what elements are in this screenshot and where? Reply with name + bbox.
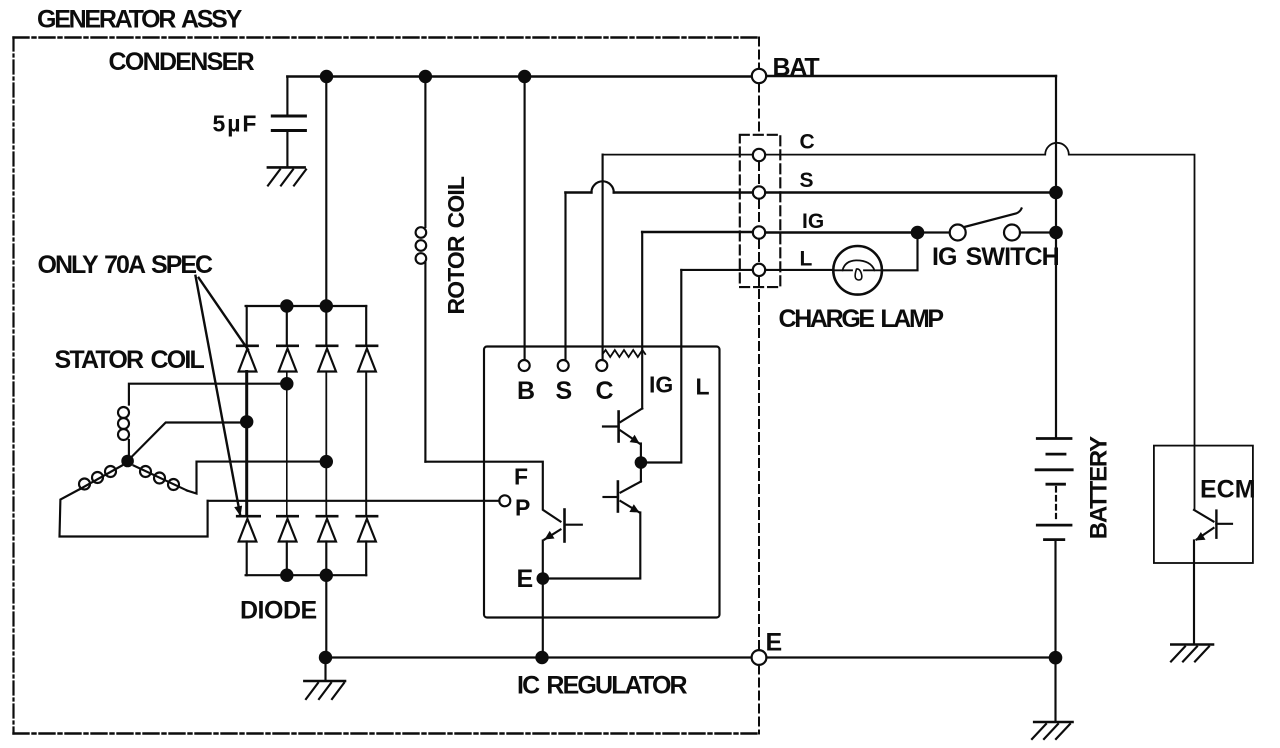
connector terminal L xyxy=(753,264,765,276)
connector (dashed) xyxy=(740,135,781,287)
svg-text:DIODE: DIODE xyxy=(240,597,317,625)
ground (generator) xyxy=(304,658,345,700)
battery xyxy=(1036,439,1072,722)
ground (condenser) xyxy=(268,167,306,185)
diode D1 (top col1, 70A spec) xyxy=(237,306,257,516)
svg-text:BATTERY: BATTERY xyxy=(1086,436,1113,539)
svg-text:S: S xyxy=(800,169,814,192)
junction node (col3 / bridge top) xyxy=(320,299,333,312)
svg-text:CHARGE LAMP: CHARGE LAMP xyxy=(779,305,944,333)
diode bridge bottom bus xyxy=(246,574,367,576)
regulator terminal B xyxy=(519,360,530,371)
diode D6 (bottom col2) xyxy=(277,516,297,575)
regulator terminal S xyxy=(558,360,569,371)
diode D3 (top col3) xyxy=(317,306,337,516)
junction node (battery / ground bus) xyxy=(1049,651,1063,665)
wire ground bus right segment xyxy=(767,656,1050,658)
resistor R1 (C to IG inside regulator) xyxy=(603,350,646,357)
stator coil left winding xyxy=(60,466,208,537)
svg-text:5µF: 5µF xyxy=(213,111,259,137)
junction node (diode col3 / top bus) xyxy=(320,70,333,83)
wire top bus xyxy=(287,75,752,78)
ground (battery) xyxy=(1032,722,1073,739)
junction node (S / right rail) xyxy=(1049,186,1063,200)
transistor Q1 (upper) xyxy=(603,409,642,457)
arch S over C vertical xyxy=(591,181,613,192)
charge lamp xyxy=(833,246,882,295)
junction node E (inside regulator) xyxy=(537,572,550,585)
svg-text:L: L xyxy=(696,374,710,400)
regulator terminal P xyxy=(499,495,510,506)
svg-text:STATOR COIL: STATOR COIL xyxy=(55,346,205,374)
generator assy boundary left edge xyxy=(12,38,14,734)
stator coil vertical winding xyxy=(118,407,129,456)
diode D2 (top col2) xyxy=(277,306,297,516)
svg-text:E: E xyxy=(517,565,534,593)
rotor coil xyxy=(416,77,427,462)
svg-text:S: S xyxy=(556,377,573,405)
diode D4 (top col4) xyxy=(357,306,377,516)
wire stator P tap to regulator P xyxy=(208,500,500,502)
wire S line to S terminal xyxy=(564,193,566,360)
wire L line to charge lamp xyxy=(765,269,833,271)
diode bridge top bus xyxy=(246,305,367,307)
svg-text:ECM: ECM xyxy=(1200,476,1256,504)
junction node (Q1 emitter / L) xyxy=(635,456,648,469)
ground bus wire xyxy=(326,656,752,658)
svg-text:CONDENSER: CONDENSER xyxy=(109,48,255,76)
wire diode col3 to top bus xyxy=(325,77,327,307)
wire C line (connector to ECM, arch over rail) xyxy=(603,143,1195,510)
IC regulator box xyxy=(484,347,720,618)
transistor Q4 (in ECM) xyxy=(1194,510,1232,644)
svg-text:ROTOR COIL: ROTOR COIL xyxy=(443,176,469,314)
capacitor C1 5uF xyxy=(272,77,305,167)
svg-text:ONLY 70A SPEC: ONLY 70A SPEC xyxy=(38,251,214,279)
wire L into regulator xyxy=(647,270,681,463)
wire bridge bottom to ground bus xyxy=(325,575,327,657)
wire IG into regulator xyxy=(641,232,643,409)
transistor Q3 (field driver) xyxy=(543,510,582,573)
svg-text:IC REGULATOR: IC REGULATOR xyxy=(517,672,688,700)
svg-text:IG: IG xyxy=(649,372,673,398)
terminal BAT xyxy=(752,69,766,83)
junction node (bridge ground / bus) xyxy=(319,651,332,664)
svg-text:E: E xyxy=(766,629,783,657)
junction node (lamp / IG line) xyxy=(911,226,925,240)
connector terminal C xyxy=(753,149,765,161)
ground (ECM) xyxy=(1171,645,1213,662)
wire S line (regulator to rail, arch over C drop) xyxy=(566,191,1052,194)
generator assy boundary top edge xyxy=(14,36,758,38)
svg-text:F: F xyxy=(514,464,528,490)
wire C line to C terminal xyxy=(602,155,604,360)
junction node (IG switch / right rail) xyxy=(1049,226,1063,240)
generator assy boundary right edge (dashed, through BAT/connector/E) xyxy=(758,38,760,734)
wire top bus to B xyxy=(524,77,526,360)
svg-text:L: L xyxy=(800,248,813,271)
junction node (phase1 / col2) xyxy=(280,377,293,390)
junction node (col2 / bridge top) xyxy=(280,299,293,312)
transistor Q2 (lower) xyxy=(549,463,641,579)
IG switch xyxy=(924,209,1050,241)
junction node (regulator B / top bus) xyxy=(518,70,531,83)
junction node (neutral / col1) xyxy=(240,415,253,428)
ECM box xyxy=(1154,446,1253,563)
svg-text:GENERATOR ASSY: GENERATOR ASSY xyxy=(37,6,243,34)
stator coil right winding xyxy=(134,462,327,494)
diode D5 (bottom col1, 70A spec) xyxy=(237,516,260,575)
junction node (rotor coil / top bus) xyxy=(419,70,432,83)
wire BAT to right rail xyxy=(766,75,1056,77)
wire regulator E to ground bus xyxy=(542,579,544,658)
connector terminal IG xyxy=(753,226,765,238)
generator assy boundary bottom edge xyxy=(14,732,760,734)
svg-text:P: P xyxy=(515,495,530,521)
svg-text:IG SWITCH: IG SWITCH xyxy=(932,243,1059,271)
svg-text:B: B xyxy=(517,377,535,405)
wire right rail vertical (to battery) xyxy=(1055,76,1057,438)
wire stator neutral to diode col1 xyxy=(129,423,247,460)
svg-text:BAT: BAT xyxy=(773,54,820,82)
junction node (regulator E / bus) xyxy=(535,651,548,664)
junction node (col3 / bridge bottom) xyxy=(320,569,333,582)
junction node (col2 / bridge bottom) xyxy=(280,569,293,582)
svg-text:C: C xyxy=(800,131,815,154)
stator neutral junction node xyxy=(121,455,134,468)
wire charge lamp to IG line xyxy=(882,239,918,270)
leader line ONLY 70A SPEC to diode D1 xyxy=(199,278,248,350)
svg-text:IG: IG xyxy=(802,210,824,233)
diode D8 (bottom col4) xyxy=(357,516,377,575)
wire F path xyxy=(425,462,560,522)
diode D7 (bottom col3) xyxy=(317,516,337,575)
junction node (phase3 / col3) xyxy=(320,455,333,468)
stator coil phase1 wire to diode col2 xyxy=(129,384,287,405)
leader arrow ONLY 70A SPEC to diode D5 xyxy=(196,276,241,514)
regulator terminal C xyxy=(596,360,607,371)
terminal E xyxy=(752,650,767,665)
svg-text:C: C xyxy=(596,377,614,405)
wire IG line xyxy=(642,231,911,234)
connector terminal S xyxy=(753,186,765,198)
